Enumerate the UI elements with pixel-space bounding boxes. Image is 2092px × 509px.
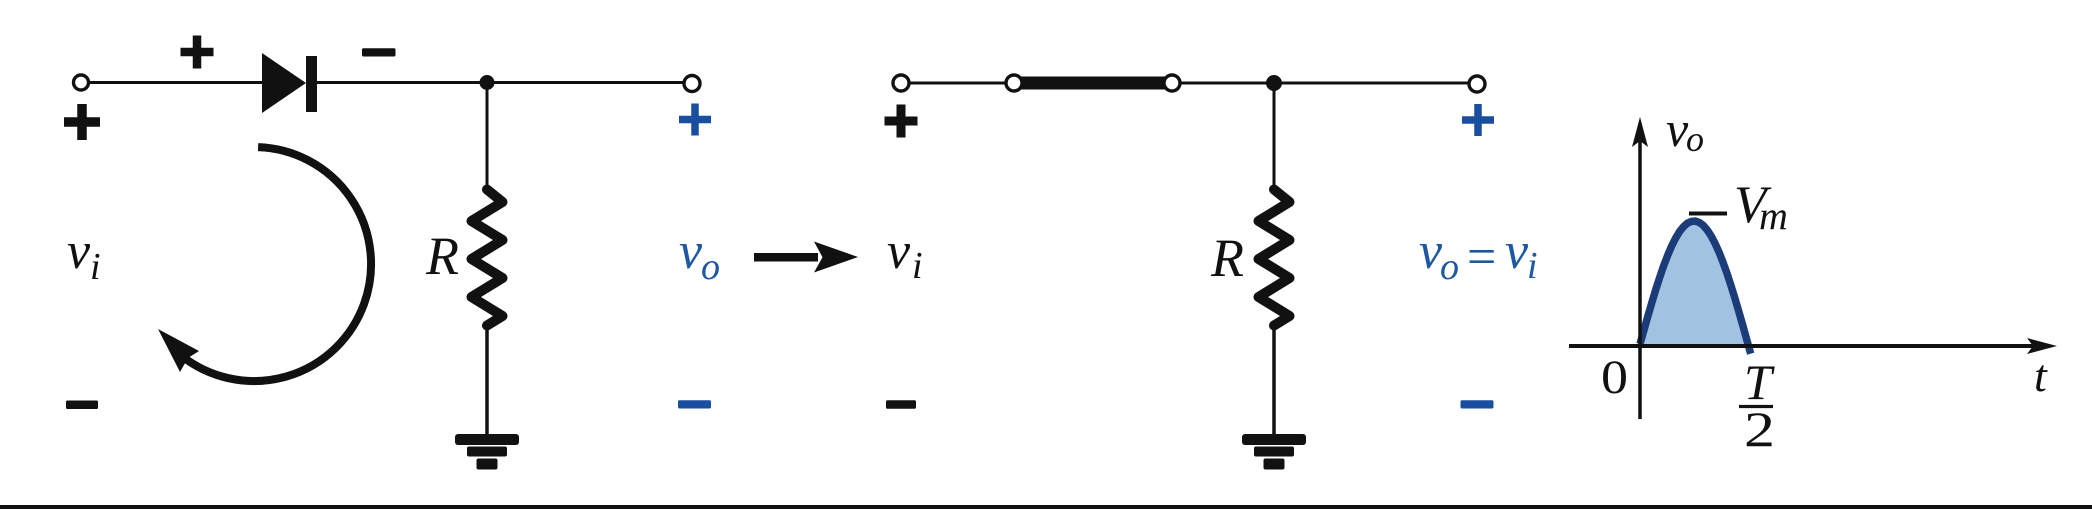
terminal input left circuit: [74, 75, 89, 90]
svg-text:m: m: [1759, 193, 1788, 238]
svg-text:v: v: [679, 223, 703, 280]
wire junction to resistor left: [486, 83, 489, 192]
svg-text:R: R: [425, 226, 459, 286]
terminal input middle circuit: [893, 75, 909, 91]
minus polarity at diode cathode: [362, 48, 396, 56]
bottom rule: [0, 505, 2092, 509]
wire top left: input to diode: [89, 81, 263, 84]
wire resistor to ground left: [485, 324, 489, 436]
resistor R left circuit: [472, 190, 503, 326]
axis horizontal arrowhead: [2027, 338, 2057, 354]
diode D1 cathode bar: [306, 56, 317, 112]
resistor R middle circuit: [1259, 190, 1290, 326]
plus label vi middle circuit: [885, 105, 918, 138]
svg-text:o: o: [1440, 246, 1459, 288]
svg-text:=: =: [1467, 229, 1496, 286]
svg-text:o: o: [1686, 119, 1704, 159]
svg-text:t: t: [2034, 350, 2048, 401]
plus label vo middle circuit (blue): [1462, 104, 1494, 136]
svg-text:2: 2: [1744, 401, 1775, 457]
wire junction to resistor middle: [1273, 83, 1276, 191]
wire resistor to ground middle: [1272, 324, 1276, 436]
node junction middle circuit: [1266, 75, 1282, 91]
plus label vi left circuit: [64, 104, 100, 140]
svg-text:i: i: [912, 245, 923, 287]
svg-text:v: v: [67, 223, 91, 280]
svg-text:v: v: [887, 223, 911, 280]
minus label vi middle circuit: [886, 400, 916, 409]
ground left circuit: [455, 434, 519, 445]
axis horizontal t: [1569, 344, 2034, 348]
wire top left: diode to output: [317, 81, 686, 84]
current loop arrow: [182, 147, 371, 381]
svg-text:R: R: [1210, 228, 1244, 288]
plus label vo left circuit (blue): [679, 104, 711, 136]
ground middle circuit: [1242, 434, 1306, 445]
node junction left circuit: [480, 75, 495, 90]
wire junction to output middle: [1282, 82, 1469, 85]
svg-text:0: 0: [1601, 351, 1628, 404]
axis vertical arrowhead: [1632, 117, 1648, 147]
minus label vi left circuit: [66, 401, 98, 410]
wire short to junction middle: [1180, 82, 1268, 85]
Vm peak tick: [1689, 212, 1727, 216]
minus label vo middle circuit (blue): [1461, 400, 1494, 408]
svg-text:o: o: [701, 246, 720, 288]
waveform half-sine fill: [1640, 221, 1748, 344]
svg-text:i: i: [90, 246, 101, 288]
wire input to short middle: [909, 82, 1006, 85]
arrow circuit transformation: [754, 253, 818, 262]
axis vertical vo: [1638, 138, 1642, 419]
terminal output left circuit: [684, 76, 700, 92]
current loop arrowhead: [158, 329, 199, 372]
short circuit bar (diode equivalent): [1021, 77, 1165, 90]
svg-text:i: i: [1527, 245, 1538, 287]
terminal output middle circuit: [1469, 76, 1485, 92]
diode D1 anode triangle (conducting): [262, 53, 306, 113]
plus polarity above diode anode: [181, 36, 214, 69]
minus label vo left circuit (blue): [678, 400, 711, 408]
svg-text:v: v: [1505, 223, 1529, 280]
waveform half-sine outline: [1640, 221, 1751, 354]
short circuit right terminal circle: [1164, 75, 1180, 91]
short circuit left terminal circle: [1006, 75, 1022, 91]
